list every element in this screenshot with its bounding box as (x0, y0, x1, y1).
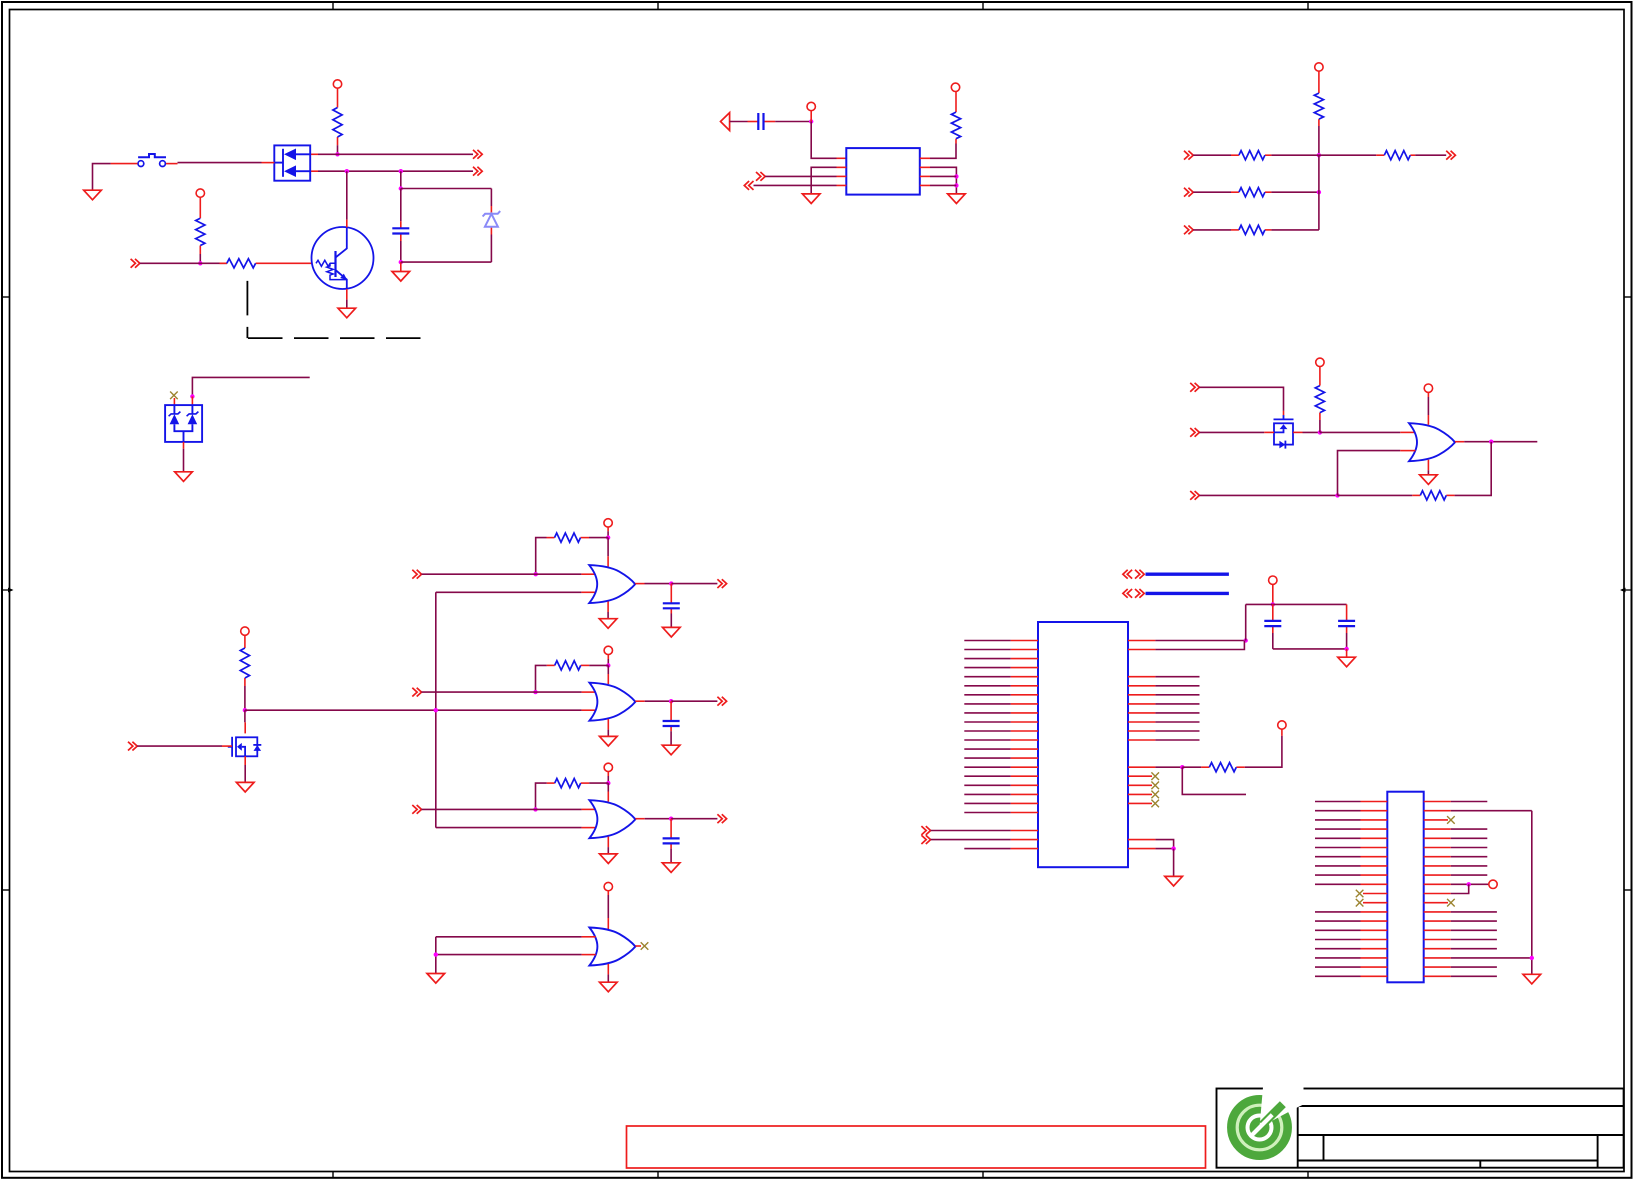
U2 right bus pin 4 (1128, 703, 1200, 705)
wire C1 to lower node (400, 241, 402, 262)
wire R7 feedback to input (536, 783, 547, 809)
U2 right bus pin 8 (1128, 739, 1200, 741)
pin U3D output (635, 945, 641, 947)
resistor R7 (547, 779, 590, 788)
U2 left pin row 2 (964, 649, 1038, 651)
U2 left pin row 18 (964, 793, 1038, 795)
no-connect U2 right 2 (1151, 782, 1159, 790)
power pin P7 (604, 882, 612, 895)
pin U3B power (607, 674, 609, 684)
wire gate input (137, 745, 222, 747)
push button SW1 (138, 154, 166, 167)
resistor R11 (1231, 188, 1271, 197)
pin U3C output (635, 818, 644, 820)
J1 left pin 4 (1315, 828, 1387, 830)
junction U3C output (669, 817, 673, 821)
pin U3D power (607, 918, 609, 929)
wire U3B in2 (436, 709, 582, 711)
wire R5 feedback to input (536, 538, 547, 575)
off-page connector U3A in1 (412, 570, 421, 579)
wire down to C1 (400, 189, 402, 222)
wire output to off-page (671, 700, 717, 702)
junction J1 ground column (1530, 956, 1534, 960)
capacitor C1 (392, 221, 409, 241)
J1 right pin 17 (1424, 948, 1497, 950)
dual diode D1 (common cathode) (274, 145, 310, 180)
junction node A (335, 152, 339, 156)
wire U3D input column (435, 937, 437, 974)
bus segment 2 (1146, 592, 1229, 595)
wire P5 to resistor node (607, 659, 609, 665)
wire VIN to U1 pin1 (811, 122, 836, 159)
ground below U3A (599, 619, 617, 629)
wire to U1.3 (765, 175, 836, 177)
capacitor C6 (1264, 604, 1281, 633)
power pin P5 (604, 646, 612, 659)
capacitor C4 (663, 819, 680, 849)
J1 right pin 1 (1424, 801, 1488, 803)
pin Q2 source (244, 756, 246, 765)
power pin P9 (951, 83, 959, 92)
junction J1 power node (1467, 882, 1471, 886)
capacitor C3 (663, 701, 680, 731)
pin U1.3 (837, 175, 847, 177)
ground below Q1 (338, 308, 356, 318)
off-page connector U2 left pin row 22 (921, 826, 930, 835)
ground below D3 (175, 472, 193, 482)
wire U1.7 to ground (930, 167, 956, 194)
wire F row2 left (1193, 191, 1231, 193)
IC U2 (1038, 622, 1128, 867)
junction zener branch (399, 186, 403, 190)
off-page connector row B (473, 167, 482, 176)
IC U1 (846, 148, 920, 195)
pin U1.1 (837, 157, 847, 159)
wire U3A output (645, 583, 672, 585)
wire input to base node (140, 262, 227, 264)
junction column to U3B in2 (434, 708, 438, 712)
pin D3 common anode (183, 442, 185, 449)
U2 right NC pin 1 (1128, 775, 1152, 777)
no-connect U2 right 3 (1151, 791, 1159, 799)
wire drain node to OR column (245, 709, 436, 711)
U2 left pin row 22 wire (931, 830, 1038, 832)
U2 left pin row 11 (964, 730, 1038, 732)
J1 left pin 9 (1315, 874, 1387, 876)
junction U1.6 node (954, 174, 958, 178)
ground below U3D (600, 982, 618, 992)
junction P14 node (1271, 602, 1275, 606)
pin D3 cathode 1 (173, 398, 175, 405)
ground below J1 (1523, 974, 1541, 984)
wire emitter to ground (346, 300, 348, 309)
U2 left pin row 12 (964, 739, 1038, 741)
J1 left pin 18 (1315, 957, 1387, 959)
wire R10 to junction (1271, 154, 1319, 156)
J1 left pin 16 (1315, 939, 1387, 941)
transistor Q1 (digital NPN) (312, 227, 374, 289)
no-connect J1 left 12 (1356, 899, 1364, 907)
U2 right bus pin 7 (1128, 730, 1200, 732)
wire R16 to P13 (1245, 736, 1282, 767)
wire to U1.4 (754, 184, 837, 186)
wire R1 to node A (337, 145, 339, 154)
off-page connector U3A out (717, 579, 726, 588)
wire P6 to resistor node (607, 776, 609, 783)
wire net to D3 (192, 377, 309, 396)
wire E gate input (1199, 387, 1283, 411)
capacitor C7 (1338, 604, 1355, 633)
dual zener diode D3 (165, 405, 202, 442)
OR gate U3D (589, 928, 635, 966)
pin Q3 gate (1283, 411, 1285, 415)
border zone ticks bottom (333, 1172, 1308, 1178)
J1 left pin 7 (1315, 856, 1387, 858)
no-connect D3 pin 1 (170, 392, 178, 400)
J1 right pin 4 (1424, 828, 1488, 830)
U2 right pin row 23 (1128, 840, 1174, 849)
wire SW1 to ground (93, 164, 111, 191)
pin U1.4 (837, 184, 847, 186)
junction R5 node (606, 535, 610, 539)
U2 right bus pin 2 (1128, 685, 1200, 687)
pin U3C in1 (582, 808, 596, 810)
J1 right pin 5 (1424, 837, 1488, 839)
ground below C4 (662, 863, 680, 873)
junction wire end D3 pin (190, 394, 194, 398)
U2 left pin row 24 (964, 848, 1038, 850)
wire C7 down (1346, 633, 1348, 649)
wire R4 to drain node (244, 686, 246, 710)
pin Q2 drain (244, 722, 246, 733)
J1 right pin 18 (ground) (1424, 957, 1532, 959)
power pin P15 (1489, 880, 1497, 888)
U2 left pin row 3 (964, 658, 1038, 660)
wire feedback stub (1182, 767, 1246, 794)
U2 left pin row 7 (964, 694, 1038, 696)
pin U3A output (635, 583, 644, 585)
wire F column (1318, 155, 1320, 230)
J1 left NC pin 12 (1363, 902, 1387, 904)
off-page connector U3B out (717, 697, 726, 706)
power pin P13 (1278, 721, 1286, 729)
resistor R8 (951, 92, 960, 144)
U2 left pin row 19 (964, 802, 1038, 804)
wire C3 to ground (670, 731, 672, 745)
pin U3B output (635, 700, 644, 702)
U2 right pin row 15 (feedback) (1128, 766, 1182, 768)
junction row2 (1317, 190, 1321, 194)
junction U2 pin1 node (1244, 638, 1248, 642)
U2 right pin row 1 (to decoupling) (1128, 640, 1246, 642)
resistor R16 (1201, 763, 1245, 772)
wire source to ground (244, 765, 246, 782)
OR gate U3C (589, 800, 635, 838)
junction column to U3D in2 (434, 952, 438, 956)
wire R9 to row1 (1318, 126, 1320, 155)
pin diode D1 anode A (310, 153, 318, 155)
wire junction to R13 (1319, 154, 1376, 156)
junction VIN node (809, 119, 813, 123)
ground below SW1 (84, 190, 102, 200)
wire feedback node to R16 (1182, 766, 1201, 768)
ground below U4 (1420, 475, 1438, 485)
ground below input column (427, 974, 445, 984)
pin U3A in2 (581, 591, 595, 593)
border zone ticks top (333, 2, 1308, 10)
U2 right pin row 24 (1128, 848, 1174, 850)
U2 left pin row 15 (964, 766, 1038, 768)
wire zener anode down (490, 235, 492, 263)
U2 left pin row 20 (964, 812, 1038, 814)
revision red box (627, 1126, 1206, 1168)
bus segment 1 (1146, 573, 1229, 576)
junction U3C input1 (533, 807, 537, 811)
ground below C2 (663, 627, 681, 637)
wire R6 node to U3B top (589, 664, 608, 666)
wire U3A in2 (436, 591, 582, 593)
no-connect U3D output (641, 942, 649, 950)
no-connect U2 right 4 (1151, 800, 1159, 808)
pin U4 in2 (1400, 450, 1415, 452)
U2 left pin row 1 (964, 640, 1038, 642)
wire U3B output (645, 700, 671, 702)
wire U2 ground node down (1173, 849, 1175, 877)
company logo (1236, 1084, 1303, 1151)
off-page connector base input (131, 259, 140, 268)
U2 left pin row 17 (964, 784, 1038, 786)
resistor R9 (1314, 71, 1323, 126)
U2 left pin row 14 (964, 757, 1038, 759)
junction decoupling ground (1344, 647, 1348, 651)
wire C4 to ground (670, 849, 672, 863)
pin U3A ground (607, 602, 609, 613)
wire R7 node to U3C top (589, 782, 608, 784)
U2 right bus pin 3 (1128, 694, 1200, 696)
J1 left pin 10 (1315, 883, 1387, 885)
wire U3C in1 (422, 808, 582, 810)
junction row B collector (345, 169, 349, 173)
U2 left pin row 8 (964, 703, 1038, 705)
wire D3 to ground (183, 449, 185, 472)
J1 left pin 20 (1315, 975, 1387, 977)
U2 left pin row 23 wire (931, 839, 1038, 841)
sheet centre arrow left (2, 588, 14, 593)
U2 right NC pin 2 (1128, 784, 1152, 786)
resistor R13 (1376, 151, 1415, 160)
wire fb to U4 in2 (1338, 451, 1401, 496)
J1 right pin 10 (power) (1424, 883, 1489, 885)
pin U1.7 (920, 166, 930, 168)
wire U3D in2 (436, 954, 582, 956)
pin U3B in1 (582, 691, 596, 693)
U2 right bus pin 6 (1128, 721, 1200, 723)
wire U3D to ground (607, 974, 609, 982)
pin U3D in2 (582, 954, 596, 956)
off-page connector U3C in1 (412, 805, 421, 814)
resistor R5 (547, 533, 590, 542)
wire U3A in1 (422, 573, 582, 575)
ground below U3B (600, 736, 618, 746)
pin SW1 left (111, 163, 138, 165)
off-page connector U1 in3 (756, 172, 765, 181)
J1 right pin 6 (1424, 847, 1488, 849)
resistor R6 (547, 661, 590, 670)
wire P7 to U3D top (607, 895, 609, 918)
power pin P6 (604, 763, 612, 776)
wire F row1 left (1193, 154, 1231, 156)
wire U3C in2 (436, 827, 582, 829)
off-page connector U2 left pin row 23 (921, 835, 930, 844)
off-page connector U1 out4 (744, 181, 753, 190)
off-page connector Q2 gate (128, 742, 137, 751)
wire OR input column (435, 592, 437, 827)
off-page connector E source in (1190, 428, 1199, 437)
J1 right pin 11 (to power node) (1424, 884, 1469, 893)
OR gate U3A (589, 565, 635, 603)
junction fb to U4 in2 (1335, 493, 1339, 497)
no-connect J1 right 3 (1447, 816, 1455, 824)
junction lower node (399, 260, 403, 264)
ground below U3C (600, 854, 618, 864)
pin U1.8 (920, 157, 930, 159)
junction row B cap branch (399, 169, 403, 173)
resistor R3 (220, 259, 312, 268)
power pin P4 (604, 519, 612, 532)
wire U3C to ground (607, 847, 609, 854)
wire U4 to ground (1427, 470, 1429, 475)
wire output to off-page (671, 818, 717, 820)
off-page connector U3C out (717, 814, 726, 823)
J1 right pin 15 (1424, 929, 1497, 931)
junction drain node (243, 708, 247, 712)
wire U1.2 to ground (811, 167, 836, 194)
off-page connector E fb in (1190, 491, 1199, 500)
pin Q1 emitter (346, 289, 348, 300)
pin U1.6 (920, 175, 930, 177)
no-connect U2 right 1 (1151, 772, 1159, 780)
J1 left NC pin 11 (1363, 893, 1387, 895)
junction feedback node (1180, 765, 1184, 769)
junction U2 ground node (1171, 846, 1175, 850)
wire R2 to base node (199, 254, 201, 263)
pin U4 in1 (1400, 431, 1415, 433)
U2 left pin row 4 (964, 667, 1038, 669)
off-page connector F in1 (1184, 151, 1193, 160)
resistor R14 (1315, 386, 1324, 420)
wire collector to row B (346, 171, 348, 219)
off-page connector F out (1446, 151, 1455, 160)
ground below Q2 (236, 782, 254, 792)
junction row1 (1317, 153, 1321, 157)
J1 left pin 3 (1315, 819, 1387, 821)
wire C5 to node (775, 121, 811, 123)
pin U1.5 (920, 184, 930, 186)
bus entry 1 left chevron (1123, 570, 1132, 579)
resistor R4 (240, 640, 249, 686)
power pin P14 (1269, 576, 1277, 604)
pin Q1 collector (346, 220, 348, 228)
ground below U1 left (802, 194, 820, 204)
wire P14 column down (1245, 604, 1247, 640)
wire decoupling bottom (1273, 648, 1347, 650)
wire R14 to node (1319, 420, 1321, 432)
pin U3B in2 (582, 709, 596, 711)
power pin P10 (1315, 63, 1323, 72)
ground below C3 (662, 745, 680, 755)
pin Q2 gate (222, 745, 232, 747)
OR gate U4 (1409, 423, 1455, 461)
ground below U2 (1165, 876, 1183, 886)
wire E fb row (1199, 494, 1337, 496)
pin U3A in1 (581, 573, 595, 575)
junction E drain node (1318, 430, 1322, 434)
J1 left pin 2 (1315, 810, 1387, 812)
off-page connector U3B in1 (412, 688, 421, 697)
U2 left pin row 6 (964, 685, 1038, 687)
bus entry 1 right chevron (1135, 570, 1144, 579)
pin D3 cathode 2 (191, 396, 193, 405)
zener diode D2 (483, 206, 501, 235)
wire P4 to resistor node (607, 531, 609, 537)
U2 right bus pin 1 (1128, 676, 1200, 678)
off-page connector E gate in (1190, 383, 1199, 392)
wire Q3 drain to node (1303, 431, 1320, 433)
power pin P8 (807, 102, 815, 121)
border zone ticks left (2, 297, 10, 890)
transistor Q2 (P-MOSFET switch) (228, 737, 261, 757)
off-page connector row A (473, 150, 482, 159)
wire R15 to output (1455, 442, 1492, 496)
J1 right NC pin 12 (1424, 902, 1448, 904)
wire output to off-page (671, 583, 717, 585)
junction U1.5 node (954, 183, 958, 187)
wire U1.6 to ground column (930, 175, 956, 177)
port connector input triangle (721, 113, 730, 131)
off-page connector F in2 (1184, 188, 1193, 197)
resistor R1 (333, 108, 342, 146)
bus entry 2 right chevron (1135, 589, 1144, 598)
wire R11 to column (1271, 191, 1319, 193)
pin U4 power (1427, 415, 1429, 425)
wire U3B in1 (422, 691, 582, 693)
J1 left pin 14 (1315, 920, 1387, 922)
J1 right pin 2 (ground run) (1424, 810, 1532, 812)
U2 right pin row 2 (1128, 641, 1244, 650)
wire button to D1 (178, 162, 262, 164)
J1 right pin 8 (1424, 865, 1488, 867)
wire U3B to ground (607, 730, 609, 737)
resistor R10 (1231, 151, 1271, 160)
pin D1 common cathode (262, 162, 275, 164)
pin diode D1 anode B (310, 170, 318, 172)
U2 left pin row 9 (964, 712, 1038, 714)
title block frame (1217, 1089, 1624, 1168)
wire C2 to ground (670, 614, 672, 628)
J1 right pin 13 (1424, 911, 1497, 913)
U2 right NC pin 3 (1128, 793, 1152, 795)
wire R13 to off-page (1415, 154, 1446, 156)
dashed outline (247, 281, 420, 338)
wire U3A to ground (607, 612, 609, 619)
junction U4 output (1489, 440, 1493, 444)
J1 right pin 16 (1424, 939, 1497, 941)
resistor R15 (1412, 491, 1454, 500)
wire F row3 left (1193, 229, 1231, 231)
resistor R2 (196, 218, 205, 254)
junction base node (198, 261, 202, 265)
wire row B down to zener branch (400, 171, 402, 188)
